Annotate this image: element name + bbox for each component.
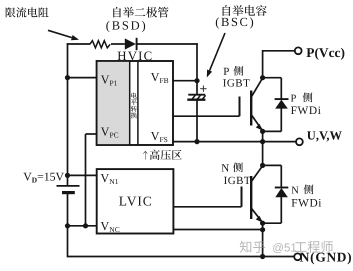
svg-text:(BSD): (BSD) <box>106 18 148 32</box>
svg-text:FWDi: FWDi <box>291 105 322 117</box>
svg-text:P(Vcc): P(Vcc) <box>306 45 345 60</box>
svg-text:HVIC: HVIC <box>117 49 153 63</box>
svg-text:P: P <box>223 66 229 78</box>
svg-text:@51: @51 <box>272 242 297 255</box>
svg-text:N: N <box>221 162 229 174</box>
svg-text:N: N <box>291 185 299 196</box>
svg-text:LVIC: LVIC <box>119 194 153 209</box>
svg-text:FWDi: FWDi <box>291 198 322 210</box>
svg-text:N(GND): N(GND) <box>300 249 353 264</box>
svg-text:U,V,W: U,V,W <box>307 129 343 143</box>
svg-text:P: P <box>291 93 297 104</box>
svg-text:IGBT: IGBT <box>224 175 251 187</box>
svg-text:(BSC): (BSC) <box>215 15 255 29</box>
svg-text:VD=15V: VD=15V <box>23 169 64 184</box>
svg-text:IGBT: IGBT <box>223 77 250 89</box>
